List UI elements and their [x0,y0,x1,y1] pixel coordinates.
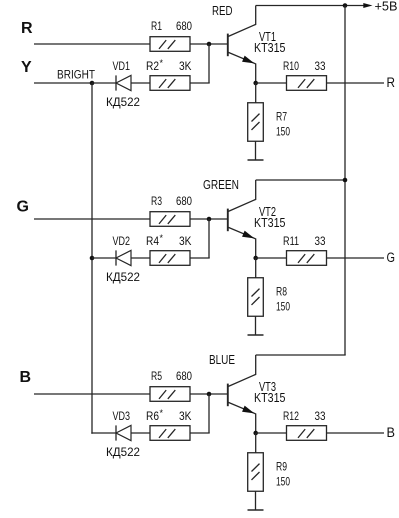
svg-text:КД522: КД522 [106,445,140,459]
node BRIGHT junction [90,81,95,86]
transistor base bar [227,384,229,407]
svg-text:B: B [387,425,396,440]
wire R3 to base node [190,218,227,220]
svg-text:150: 150 [276,475,290,489]
resistor R5 [150,387,190,402]
svg-text:R8: R8 [276,285,287,299]
svg-text:R12: R12 [283,409,299,423]
resistor R12 [287,426,327,441]
svg-text:33: 33 [315,234,326,248]
svg-text:33: 33 [315,59,326,73]
+5V arrow [363,3,372,8]
transistor base bar [227,209,229,232]
wire emitter node to R8 [255,258,257,278]
svg-text:R: R [21,20,33,37]
wire input R to R1 [34,43,150,45]
wire R5 to base node [190,393,227,395]
wire GREEN collector rail [256,179,345,181]
svg-text:R11: R11 [283,234,299,248]
resistor R11 [287,251,327,266]
transistor collector wire [228,180,255,211]
wire right supply rail vertical [344,6,346,356]
base node junction [207,42,212,47]
svg-text:GREEN: GREEN [203,177,239,192]
svg-text:КД522: КД522 [106,95,140,109]
svg-text:150: 150 [276,125,290,139]
resistor R7 [248,103,264,142]
svg-text:*: * [160,233,164,243]
svg-text:R7: R7 [276,110,287,124]
wire R4 output [190,257,210,259]
wire emitter node to R7 [255,83,257,103]
svg-text:VD1: VD1 [113,59,131,73]
svg-text:680: 680 [176,369,192,383]
svg-text:G: G [387,250,396,265]
svg-text:33: 33 [315,409,326,423]
resistor R10 [287,76,327,91]
wire emitter node to R12 [256,432,287,434]
svg-text:KT315: KT315 [254,391,286,405]
diode VD2 [115,250,117,265]
node VD2 branch junction [90,256,95,261]
svg-text:VD3: VD3 [113,409,131,423]
wire vertical R2 to base node [208,44,210,83]
wire R8 to ground [255,317,257,336]
resistor R9 [248,453,264,492]
wire R2 output [190,82,210,84]
wire R9 to ground [255,492,257,511]
wire input B to R5 [34,393,150,395]
svg-text:VD2: VD2 [113,234,131,248]
resistor R8 [248,278,264,317]
resistor R6 [150,426,190,441]
wire R1 to base node [190,43,227,45]
emitter node junction [253,81,258,86]
wire R11 to output G [326,257,384,259]
svg-text:680: 680 [176,19,192,33]
wire diode VD2 anode to R4 [131,257,150,259]
svg-text:R1: R1 [151,19,162,33]
svg-text:3K: 3K [179,59,192,73]
svg-text:R6: R6 [146,409,159,423]
svg-text:3K: 3K [179,409,192,423]
svg-text:R10: R10 [283,59,299,73]
svg-text:Y: Y [21,59,32,76]
wire BRIGHT to VD3 [90,432,93,434]
transistor emitter wire with arrow [228,402,255,433]
emitter node junction [253,256,258,261]
wire R12 to output B [326,432,384,434]
wire node to diode VD2 cathode [92,257,116,259]
wire diode VD3 anode to R6 [131,432,150,434]
wire BRIGHT vertical bus [91,83,93,434]
svg-text:680: 680 [176,194,192,208]
svg-text:R9: R9 [276,460,287,474]
transistor base bar [227,34,229,57]
svg-text:R: R [387,75,396,90]
resistor R3 [150,212,190,227]
transistor emitter wire with arrow [228,227,255,258]
svg-text:R3: R3 [151,194,162,208]
svg-text:R4: R4 [146,234,159,248]
svg-text:+5В: +5В [375,0,398,14]
base node junction [207,392,212,397]
wire vertical R6 to base node [208,394,210,433]
svg-text:G: G [17,199,29,216]
svg-text:*: * [160,58,164,68]
resistor R4 [150,251,190,266]
svg-text:RED: RED [212,3,233,18]
wire input G to R3 [34,218,150,220]
wire diode VD1 anode to R2 [131,82,150,84]
ground [248,159,264,161]
transistor emitter wire with arrow [228,52,255,83]
wire Y input [34,82,92,84]
emitter node junction [253,431,258,436]
wire R6 output [190,432,210,434]
resistor R1 [150,37,190,52]
wire R7 to ground [255,142,257,161]
svg-text:R2: R2 [146,59,159,73]
svg-text:B: B [20,369,32,386]
diode VD3 [115,425,117,440]
transistor collector wire [228,6,255,37]
wire node to diode VD3 cathode [92,432,116,434]
wire node to diode VD1 cathode [92,82,116,84]
svg-text:КД522: КД522 [106,270,140,284]
svg-text:3K: 3K [179,234,192,248]
svg-text:KT315: KT315 [254,216,286,230]
wire R10 to output R [326,82,384,84]
transistor collector wire [228,355,255,386]
node top rail junction [343,3,348,8]
+5V top rail wire [256,5,364,7]
svg-text:KT315: KT315 [254,41,286,55]
svg-text:*: * [160,408,164,418]
svg-text:R5: R5 [151,369,162,383]
wire emitter node to R9 [255,433,257,453]
wire emitter node to R11 [256,257,287,259]
resistor R2 [150,76,190,91]
wire BLUE collector rail [256,354,346,356]
wire vertical R4 to base node [208,219,210,258]
base node junction [207,217,212,222]
diode VD1 [115,75,117,90]
node GREEN rail junction [343,178,348,183]
svg-text:BLUE: BLUE [209,352,235,367]
ground [248,334,264,336]
svg-text:150: 150 [276,300,290,314]
svg-text:BRIGHT: BRIGHT [57,70,95,82]
ground [248,509,264,511]
wire emitter node to R10 [256,82,287,84]
